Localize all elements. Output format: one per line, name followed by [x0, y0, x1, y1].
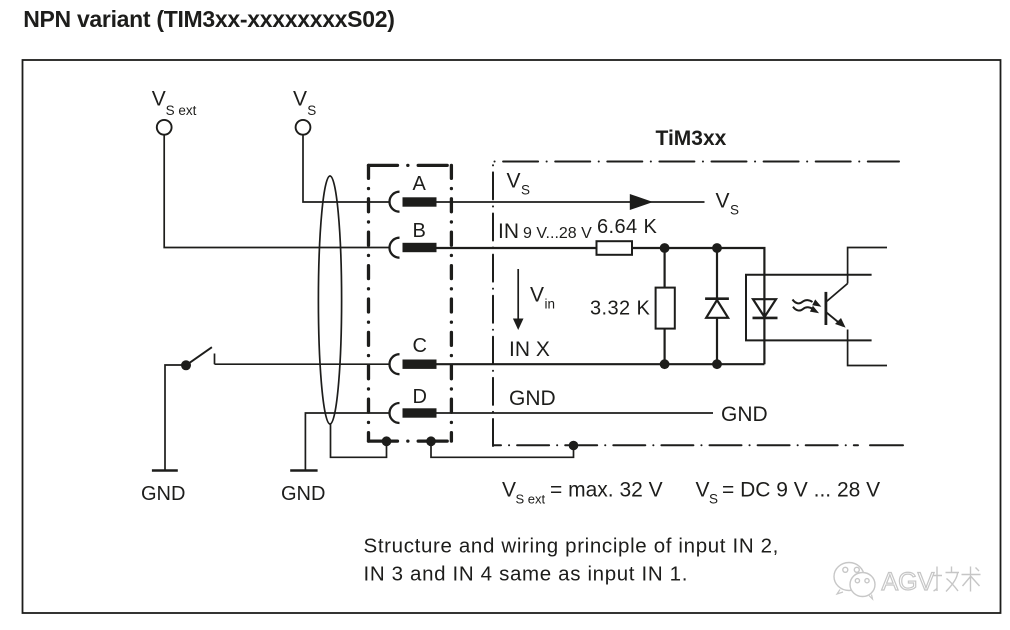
pin A contact — [403, 197, 437, 206]
emitter arrowhead — [835, 318, 846, 328]
svg-text:AGV: AGV — [882, 568, 935, 596]
TiM3xx frame top dash-dot — [493, 161, 899, 163]
wire pin D to GND2 — [305, 413, 389, 471]
equation VS DC 9V 28V — [696, 479, 881, 507]
label VS ext — [152, 88, 197, 119]
watermark glyph ji — [933, 567, 960, 592]
svg-text:V: V — [293, 88, 307, 111]
label VS inside frame — [507, 170, 531, 198]
shield junction dot S2 — [426, 436, 436, 446]
wire VSext to pin B — [164, 136, 389, 248]
svg-text:= max. 32 V: = max. 32 V — [550, 479, 663, 502]
svg-text:S: S — [521, 183, 530, 198]
label IN 9V..28V — [498, 220, 592, 243]
svg-text:NPN variant (TIM3xx-xxxxxxxxS0: NPN variant (TIM3xx-xxxxxxxxS02) — [23, 6, 394, 32]
resistor R2 3.32K — [656, 288, 675, 329]
junction node C1 — [660, 359, 670, 369]
wire GND rail from pin D — [437, 412, 714, 414]
svg-text:Structure and wiring principle: Structure and wiring principle of input … — [364, 535, 780, 558]
svg-text:S: S — [730, 203, 739, 218]
junction node C2 — [712, 359, 722, 369]
emitter wire and rail — [848, 330, 887, 366]
pin B contact — [403, 243, 437, 252]
light arrows — [793, 300, 814, 311]
TiM3xx frame left dash-dot — [492, 162, 494, 447]
svg-text:IN: IN — [498, 220, 519, 243]
junction node B2 — [712, 243, 722, 253]
wire IN X rail inside — [437, 363, 765, 365]
label Vin — [530, 284, 555, 312]
svg-text:V: V — [530, 284, 544, 307]
svg-text:in: in — [545, 297, 556, 312]
svg-text:V: V — [716, 190, 730, 213]
svg-text:TiM3xx: TiM3xx — [656, 127, 727, 150]
TiM3xx frame bottom dash-dot — [494, 444, 858, 446]
svg-text:B: B — [413, 220, 426, 242]
wire VS rail from pin A — [437, 201, 705, 203]
svg-text:V: V — [507, 170, 521, 193]
terminal VS ext circle — [157, 120, 172, 135]
light arrow heads — [810, 299, 822, 313]
optocoupler LED — [753, 299, 778, 318]
svg-text:V: V — [152, 88, 166, 111]
ground GND1 bar — [152, 469, 178, 471]
wire D1 to IN X rail — [716, 318, 718, 364]
svg-text:GND: GND — [281, 483, 325, 505]
svg-text:GND: GND — [509, 387, 556, 410]
switch S1 pole dot — [181, 360, 191, 370]
svg-text:A: A — [413, 173, 427, 195]
pin D socket arc — [390, 403, 400, 423]
svg-text:V: V — [696, 479, 710, 502]
shield wire to cable — [331, 424, 387, 457]
VS rail arrow — [630, 194, 653, 210]
svg-text:S: S — [307, 103, 316, 118]
wire VS to pin A — [303, 136, 389, 203]
watermark logo — [834, 563, 875, 600]
equation VSext max 32V — [502, 479, 663, 507]
diode D1 — [705, 299, 729, 318]
TiM3xx frame bottom final dash — [870, 444, 903, 446]
resistor R1 6.64K — [597, 241, 633, 255]
label VS — [293, 88, 316, 119]
svg-text:GND: GND — [141, 483, 185, 505]
svg-text:6.64 K: 6.64 K — [597, 216, 657, 238]
wire R1 to LED corner — [632, 248, 764, 364]
terminal VS circle — [296, 120, 311, 135]
wire R2 to IN X rail — [663, 329, 665, 365]
switch S1 fixed contact tick — [214, 354, 216, 365]
svg-text:9 V...28 V: 9 V...28 V — [523, 225, 592, 242]
diode D1 branch wire — [716, 248, 718, 299]
resistor R2 3.32K branch wire — [663, 248, 665, 288]
cable ellipse — [318, 176, 341, 424]
pin C contact — [403, 360, 437, 369]
pin B socket arc — [390, 238, 400, 258]
pin D contact — [403, 408, 437, 417]
housing junction dot — [569, 441, 579, 451]
svg-text:C: C — [413, 335, 427, 357]
shield wire to housing — [431, 441, 574, 457]
Vin arrow — [513, 269, 524, 330]
svg-text:GND: GND — [721, 403, 768, 426]
wire IN X rail — [215, 363, 390, 365]
svg-text:V: V — [502, 479, 516, 502]
wire IN rail from pin B to R1 — [437, 247, 597, 249]
junction node B1 — [660, 243, 670, 253]
pin C socket arc — [390, 354, 400, 374]
watermark glyph shu — [962, 567, 981, 592]
switch S1 lever — [186, 347, 212, 365]
ground GND2 bar — [290, 469, 317, 471]
svg-text:3.32 K: 3.32 K — [590, 298, 650, 320]
pin A socket arc — [390, 192, 400, 212]
optocoupler U1 box — [746, 275, 872, 341]
svg-text:IN X: IN X — [509, 338, 550, 361]
svg-text:S: S — [709, 492, 718, 507]
svg-text:S ext: S ext — [516, 492, 546, 507]
svg-text:IN 3 and IN 4 same as input IN: IN 3 and IN 4 same as input IN 1. — [364, 563, 689, 586]
svg-text:= DC 9 V ... 28 V: = DC 9 V ... 28 V — [722, 479, 880, 502]
collector wire and rail — [848, 248, 887, 284]
caption text — [364, 535, 780, 586]
svg-text:D: D — [413, 386, 427, 408]
connector box dash-dot — [369, 165, 452, 441]
label VS at rail end — [716, 190, 740, 218]
svg-text:S ext: S ext — [166, 103, 197, 118]
wire switch to GND1 — [165, 365, 185, 471]
shield junction dot S1 — [382, 436, 392, 446]
phototransistor Q1 — [826, 284, 848, 327]
